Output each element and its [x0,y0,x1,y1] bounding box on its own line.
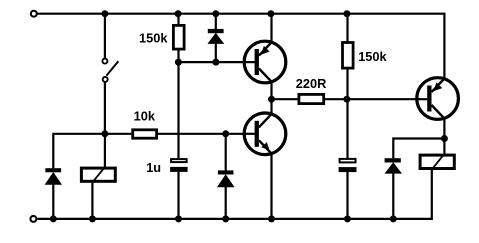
capacitor C2 [339,159,357,172]
wire Q1 collector to node C [270,82,272,99]
resistor R4 10k horizontal [133,130,157,138]
wire node A left branch horizontal [53,134,131,168]
diode D4 top (across R1) [207,29,224,44]
junction node B at D4 anode [212,59,219,66]
transistor Q1 PNP [244,41,286,83]
junction bottom rail / D2 [222,215,229,222]
wire D3 bottom to rail [392,173,394,219]
svg-text:1u: 1u [146,160,161,175]
relay RL2 coil [420,154,454,169]
wire node C to R3 [272,98,298,100]
switch S1 [102,59,118,82]
transistor Q3 PNP [417,78,459,120]
junction node A switch/10k/RL1 [101,130,108,137]
wire Q1 emitter to top rail [270,14,272,42]
wire 10k to Q2 base [158,133,244,135]
terminal top-left [31,11,37,17]
wire node C to Q2 collector [270,99,272,114]
diode D1 bottom left [45,168,62,185]
svg-text:150k: 150k [358,49,387,64]
wire C2 bottom to rail [346,172,348,219]
junction bottom rail / Q2 emitter [268,215,275,222]
terminal bottom-left [30,216,36,222]
capacitor C1 1u [170,159,188,172]
wire bottom rail [37,170,432,219]
svg-text:220R: 220R [296,76,327,91]
wire node E horizontal to D3 [393,139,444,159]
junction node C Q1-Q2 collectors [268,96,275,103]
wire R1 bottom to base node B [177,50,179,62]
junction top rail / Q1 emitter [267,10,274,17]
wire D2 top from base wire [225,134,227,171]
junction top rail / switch [101,10,108,17]
wire D1 to bottom rail [52,184,54,219]
junction node D R2/C2/Q3 base [343,96,350,103]
diode D2 [217,170,235,187]
wire R3 to Q3 base [325,98,416,100]
wire node D down to C2 [346,99,348,158]
wire node B down to C1 (crossover at y=134) [177,62,179,158]
relay RL1 coil [81,167,115,182]
junction top rail / R1 [175,10,182,17]
junction bottom rail / C1 [175,215,182,222]
resistor R1 150k vertical [173,25,184,49]
wire top rail [37,14,444,79]
junction top rail / D4 [212,10,219,17]
svg-text:10k: 10k [134,109,156,124]
wire R2 top stub [346,14,348,42]
junction node E Q3 collector / RL2 [441,135,448,142]
svg-text:150k: 150k [139,30,168,45]
transistor Q2 NPN [244,113,286,155]
wire Q3 collector down to node E [443,119,445,139]
wire D2 bottom to rail [225,187,227,219]
wire R2 bottom to node D [346,69,348,99]
wire switch drop from top rail [104,14,106,58]
wire R1 top stub [177,14,179,25]
wire C1 bottom to rail [177,172,179,219]
junction bottom rail / C2 [344,215,351,222]
junction node A / D2 cathode [222,130,229,137]
resistor R3 220R horizontal [299,94,324,103]
resistor R2 150k vertical [343,43,354,69]
diode D3 [385,158,403,173]
junction node B at R1 bottom [175,59,182,66]
junction bottom rail / RL1 [89,215,96,222]
wire relay RL1 bottom to rail [91,183,93,219]
junction top rail / R2 [343,10,350,17]
wire node B horizontal to Q1 base [179,61,245,63]
wire D4 top stub [215,14,217,30]
junction bottom rail / D3 [390,215,397,222]
wire D4 bottom to node B [215,44,217,63]
junction bottom rail / D1 [50,215,57,222]
wire node A to relay RL1 top [104,134,106,167]
wire node E to relay RL2 top [443,139,445,154]
wire switch to node A [104,82,106,133]
wire Q2 emitter to bottom rail [270,154,272,219]
